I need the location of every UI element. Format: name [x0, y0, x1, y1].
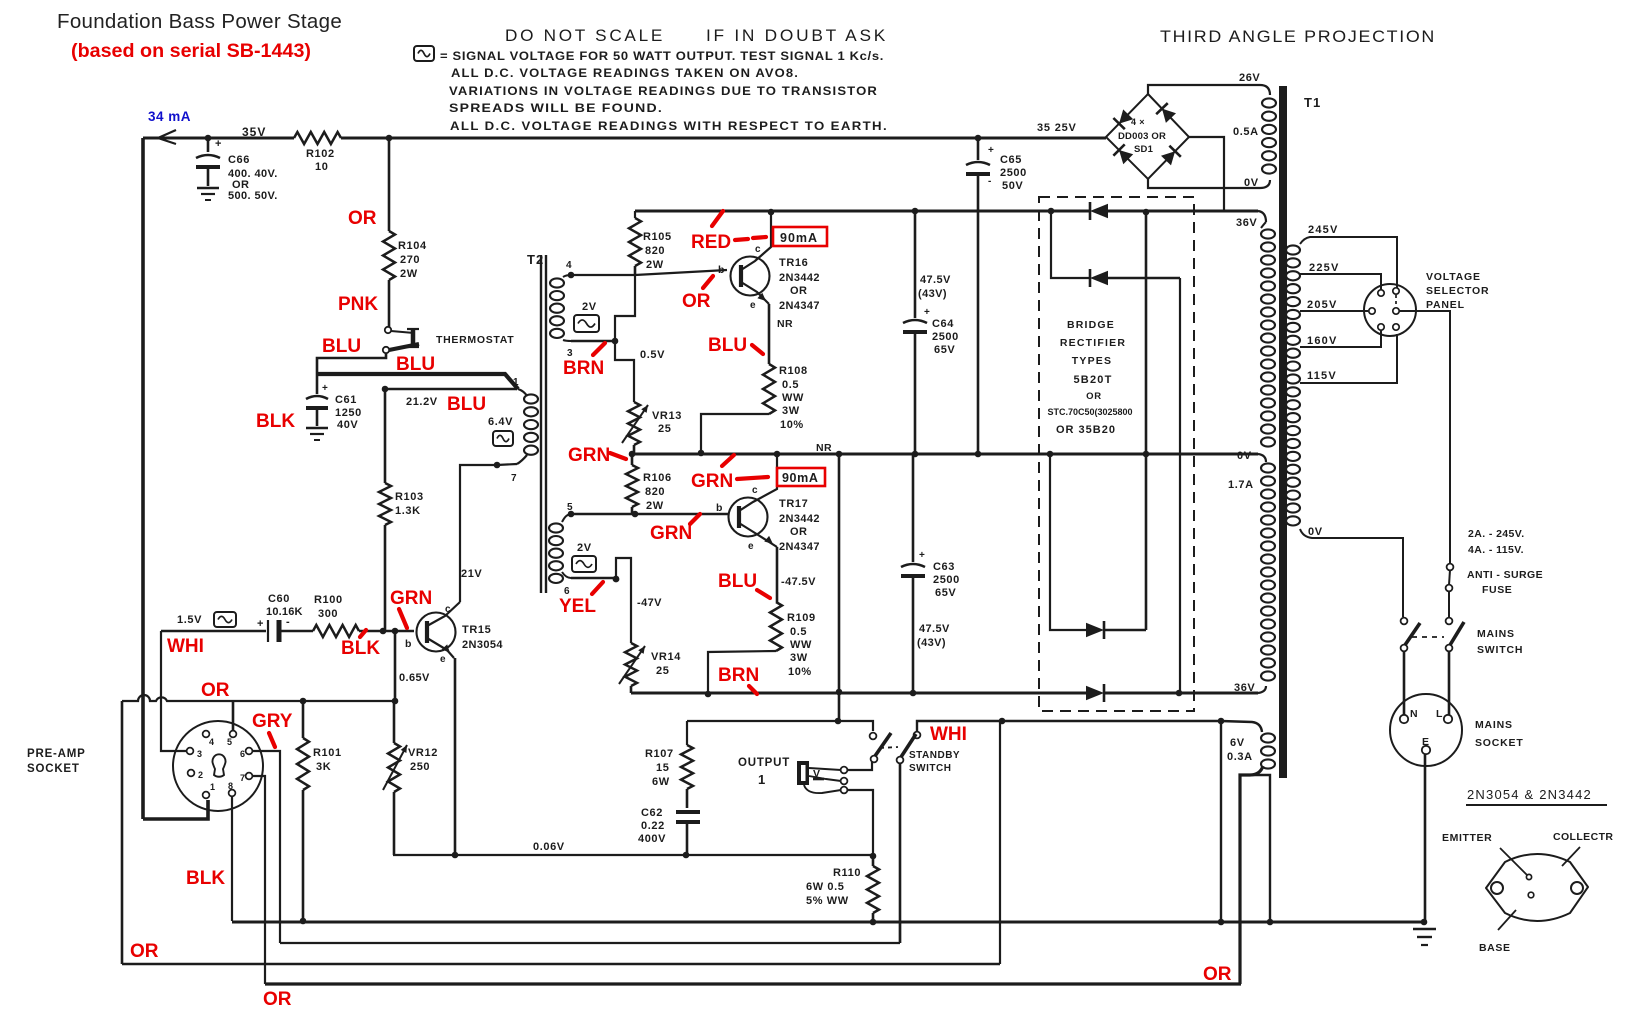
voltage selector panel	[1364, 284, 1416, 336]
svg-text:GRN: GRN	[390, 588, 432, 609]
svg-text:245V: 245V	[1308, 224, 1339, 236]
svg-text:2N3054 & 2N3442: 2N3054 & 2N3442	[1467, 787, 1592, 802]
wire OR rail bottom thick	[265, 982, 1241, 985]
diode D4 on -36V rail	[1086, 686, 1104, 700]
wire standby right contact to heater rail (WHI)	[917, 721, 1002, 732]
wire to pre-amp socket pin 1	[143, 800, 208, 819]
svg-text:VR12: VR12	[408, 747, 438, 759]
svg-text:R104: R104	[398, 240, 427, 252]
T1 winding 6V	[1261, 733, 1275, 742]
svg-text:2W: 2W	[646, 500, 664, 512]
wire 0.06V rail	[393, 854, 874, 856]
current arrow 34 mA	[158, 130, 176, 144]
svg-text:7: 7	[511, 473, 517, 484]
svg-text:OR: OR	[348, 208, 377, 229]
tap 115V	[1300, 334, 1397, 383]
diode D2 branch	[1048, 208, 1055, 215]
svg-text:10%: 10%	[780, 419, 804, 431]
svg-text:(43V): (43V)	[917, 637, 946, 649]
svg-text:2W: 2W	[400, 268, 418, 280]
svg-text:225V: 225V	[1309, 262, 1340, 274]
svg-text:SOCKET: SOCKET	[27, 763, 80, 775]
svg-text:RECTIFIER: RECTIFIER	[1060, 337, 1126, 349]
svg-text:2500: 2500	[933, 574, 960, 586]
svg-text:1: 1	[758, 772, 765, 787]
svg-text:RED: RED	[691, 232, 731, 253]
svg-text:OR: OR	[201, 680, 230, 701]
wire 6V bottom (OR) thick	[1240, 766, 1263, 984]
svg-text:BASE: BASE	[1479, 942, 1511, 954]
svg-text:4: 4	[209, 737, 214, 747]
svg-text:TR15: TR15	[462, 624, 491, 636]
svg-text:PRE-AMP: PRE-AMP	[27, 748, 86, 760]
svg-text:+: +	[924, 307, 930, 318]
diode D1 on +35V rail	[1090, 204, 1108, 218]
svg-text:5B20T: 5B20T	[1073, 374, 1112, 386]
wire D2 to -36V rail	[1179, 278, 1181, 693]
wire jack sleeve to 0.06V rail	[847, 790, 873, 856]
T1 winding 36V upper	[1261, 229, 1275, 238]
svg-text:R110: R110	[833, 867, 861, 879]
resistor R103	[384, 389, 387, 483]
capacitor C60	[267, 620, 269, 642]
svg-text:1: 1	[513, 377, 519, 388]
transistor TR16	[731, 257, 770, 296]
svg-text:BRIDGE: BRIDGE	[1067, 319, 1115, 331]
svg-text:SWITCH: SWITCH	[909, 763, 951, 774]
svg-text:BLK: BLK	[186, 868, 225, 889]
tap 0V primary	[1300, 529, 1403, 617]
svg-text:WHI: WHI	[930, 724, 967, 745]
wire C65 down to mid rail	[977, 211, 980, 454]
svg-text:0V: 0V	[1308, 526, 1323, 538]
svg-text:C63: C63	[933, 561, 955, 573]
tap 160V	[1300, 330, 1381, 347]
earth symbol	[1413, 928, 1436, 931]
svg-text:0.06V: 0.06V	[533, 841, 565, 853]
svg-text:3W: 3W	[782, 405, 800, 417]
svg-text:400V: 400V	[638, 833, 666, 845]
svg-text:R106: R106	[643, 472, 672, 484]
svg-text:5: 5	[227, 737, 232, 747]
svg-text:500. 50V.: 500. 50V.	[228, 190, 278, 202]
svg-text:4 ×: 4 ×	[1131, 117, 1145, 127]
wire TR17 emitter to R109	[776, 547, 779, 602]
svg-text:C61: C61	[335, 394, 357, 406]
svg-text:MAINS: MAINS	[1475, 719, 1513, 731]
wire S-jog pin3 node	[615, 275, 635, 402]
svg-text:e: e	[440, 654, 446, 665]
resistor R102	[294, 132, 341, 144]
wire TR15 emitter down	[454, 658, 457, 855]
svg-text:10.16K: 10.16K	[266, 606, 303, 618]
svg-text:2N4347: 2N4347	[779, 300, 820, 312]
leader base	[1498, 910, 1516, 930]
wire socket pin5 to bias rail	[232, 701, 235, 730]
leader collector	[1562, 847, 1580, 866]
annotation 90mA box TR16	[773, 227, 827, 246]
svg-text:3K: 3K	[316, 761, 331, 773]
svg-text:R103: R103	[395, 491, 424, 503]
svg-text:(based on serial SB-1443): (based on serial SB-1443)	[71, 41, 311, 62]
svg-text:R100: R100	[314, 594, 343, 606]
svg-text:OR 35B20: OR 35B20	[1056, 424, 1116, 436]
svg-text:5% WW: 5% WW	[806, 895, 849, 907]
wire bias rail y701	[122, 695, 397, 701]
svg-text:3: 3	[197, 749, 202, 759]
leader emitter	[1500, 848, 1527, 875]
svg-text:2V: 2V	[577, 542, 592, 554]
wire top +35V rail	[143, 137, 294, 140]
svg-text:0.5V: 0.5V	[640, 349, 665, 361]
bridge rectifier DD003	[1106, 94, 1189, 179]
svg-text:NR: NR	[777, 318, 793, 330]
svg-text:1250: 1250	[335, 407, 362, 419]
wire OR drop from bias rail	[121, 701, 124, 964]
svg-text:25: 25	[658, 423, 671, 435]
svg-text:TYPES: TYPES	[1072, 355, 1112, 367]
svg-text:DO NOT SCALE: DO NOT SCALE	[505, 27, 665, 45]
transistor TR17	[729, 498, 768, 537]
svg-text:36V: 36V	[1234, 682, 1255, 694]
svg-text:1: 1	[210, 782, 215, 792]
svg-text:250: 250	[410, 761, 430, 773]
svg-text:BLU: BLU	[718, 571, 757, 592]
svg-text:2N3442: 2N3442	[779, 513, 820, 525]
svg-text:e: e	[750, 300, 756, 311]
svg-text:21V: 21V	[461, 568, 482, 580]
svg-text:Foundation Bass Power Stage: Foundation Bass Power Stage	[57, 10, 342, 33]
variable resistor VR13	[628, 402, 640, 445]
T2 primary winding pins 1-7	[524, 394, 538, 403]
T2 secondary winding pins 4-3	[550, 278, 564, 287]
capacitor C61	[316, 374, 319, 394]
wire T2 pin7 to TR15 collector 21V	[460, 464, 517, 602]
svg-text:65V: 65V	[935, 587, 956, 599]
wire OR rail lower	[122, 963, 1000, 966]
svg-text:1.7A: 1.7A	[1228, 479, 1254, 491]
T1 winding 26V	[1262, 98, 1276, 107]
svg-text:OR: OR	[790, 285, 807, 297]
svg-text:15: 15	[656, 762, 669, 774]
svg-text:2N4347: 2N4347	[779, 541, 820, 553]
svg-text:+: +	[322, 383, 328, 394]
svg-text:BLK: BLK	[256, 411, 295, 432]
standby switch	[870, 733, 877, 740]
svg-text:+: +	[919, 550, 925, 561]
variable resistor VR14	[625, 643, 637, 686]
svg-text:EMITTER: EMITTER	[1442, 832, 1492, 844]
svg-text:MAINS: MAINS	[1477, 628, 1515, 640]
svg-text:21.2V: 21.2V	[406, 396, 438, 408]
svg-text:OR: OR	[263, 989, 292, 1010]
svg-text:25: 25	[656, 665, 669, 677]
svg-text:b: b	[718, 264, 724, 276]
node TR15 base	[380, 628, 387, 635]
svg-text:2A. - 245V.: 2A. - 245V.	[1468, 528, 1525, 540]
svg-text:BLU: BLU	[322, 336, 361, 357]
transformer T1 core	[1279, 86, 1287, 778]
svg-text:C65: C65	[1000, 154, 1022, 166]
wire -36V rail	[631, 692, 1086, 695]
svg-text:ALL D.C. VOLTAGE READINGS WITH: ALL D.C. VOLTAGE READINGS WITH RESPECT T…	[450, 121, 888, 133]
svg-text:(43V): (43V)	[918, 288, 947, 300]
svg-text:E: E	[1422, 736, 1429, 748]
svg-text:0.22: 0.22	[641, 820, 665, 832]
svg-text:YEL: YEL	[559, 596, 596, 617]
wire 21.2V to T2 pin 1	[382, 386, 389, 393]
svg-text:OR: OR	[1203, 964, 1232, 985]
thermostat	[385, 327, 391, 333]
svg-text:2N3442: 2N3442	[779, 272, 820, 284]
svg-text:6W: 6W	[652, 776, 670, 788]
svg-text:1.3K: 1.3K	[395, 505, 421, 517]
wires switch to socket	[1403, 651, 1406, 715]
wire bridge bottom 0V	[1148, 179, 1270, 188]
svg-text:SWITCH: SWITCH	[1477, 644, 1523, 656]
svg-text:+: +	[257, 618, 263, 630]
svg-text:-: -	[988, 176, 991, 187]
svg-text:34 mA: 34 mA	[148, 109, 191, 124]
svg-text:BLK: BLK	[341, 638, 380, 659]
svg-text:OR: OR	[790, 526, 807, 538]
wire GRY rail	[280, 942, 900, 944]
svg-text:PNK: PNK	[338, 294, 378, 315]
wire input 1.5V (WHI)	[161, 630, 266, 632]
svg-text:WW: WW	[790, 639, 812, 651]
svg-text:2N3054: 2N3054	[462, 639, 503, 651]
svg-text:VARIATIONS IN VOLTAGE READINGS: VARIATIONS IN VOLTAGE READINGS DUE TO TR…	[449, 86, 878, 98]
tap 245V	[1300, 237, 1397, 288]
svg-text:WW: WW	[782, 392, 804, 404]
svg-text:c: c	[445, 604, 451, 615]
svg-text:820: 820	[645, 486, 665, 498]
svg-text:BRN: BRN	[563, 358, 604, 379]
svg-text:BRN: BRN	[718, 665, 759, 686]
svg-text:STANDBY: STANDBY	[909, 750, 960, 761]
svg-text:NR: NR	[816, 442, 832, 454]
svg-text:T2: T2	[527, 252, 544, 267]
svg-text:L: L	[1436, 708, 1443, 720]
svg-text:2: 2	[198, 770, 203, 780]
capacitor C64	[912, 208, 919, 215]
svg-text:0.5A: 0.5A	[1233, 126, 1259, 138]
svg-text:C64: C64	[932, 318, 954, 330]
wire thermostat to C61 and T2 (BLU)	[317, 353, 386, 374]
wire standby to GRY rail	[899, 763, 902, 943]
svg-text:ALL D.C. VOLTAGE READINGS TAKE: ALL D.C. VOLTAGE READINGS TAKEN ON AVO8.	[451, 68, 799, 80]
svg-text:0.5: 0.5	[782, 379, 799, 391]
diode D3 branch	[1047, 451, 1054, 458]
svg-text:50V: 50V	[1002, 180, 1023, 192]
svg-text:+: +	[215, 138, 221, 150]
wire left edge vertical	[141, 138, 145, 819]
wire socket pin6 (GRY)	[252, 751, 280, 943]
svg-text:40V: 40V	[337, 419, 358, 431]
capacitor C62	[676, 810, 700, 814]
wire socket pin8 to ground rail	[231, 797, 233, 921]
svg-text:6.4V: 6.4V	[488, 416, 513, 428]
svg-text:0.5: 0.5	[790, 626, 807, 638]
svg-text:PANEL: PANEL	[1426, 299, 1465, 311]
svg-text:DD003 OR: DD003 OR	[1118, 131, 1166, 142]
svg-text:2W: 2W	[646, 259, 664, 271]
wire heater drop to ground	[1220, 721, 1222, 922]
svg-text:GRN: GRN	[568, 445, 610, 466]
svg-text:ANTI - SURGE: ANTI - SURGE	[1467, 569, 1543, 581]
svg-text:0V: 0V	[1244, 177, 1259, 189]
T2 secondary winding pins 5-6	[549, 523, 563, 532]
svg-text:7: 7	[240, 773, 245, 783]
svg-text:35V: 35V	[242, 125, 266, 139]
svg-text:TR17: TR17	[779, 498, 808, 510]
svg-text:GRY: GRY	[252, 711, 293, 732]
svg-text:GRN: GRN	[691, 471, 733, 492]
svg-text:3W: 3W	[790, 652, 808, 664]
svg-text:= SIGNAL VOLTAGE FOR 50 WATT O: = SIGNAL VOLTAGE FOR 50 WATT OUTPUT. TES…	[440, 51, 884, 63]
svg-text:270: 270	[400, 254, 420, 266]
svg-text:160V: 160V	[1307, 335, 1338, 347]
note sine symbol box	[414, 46, 434, 61]
svg-text:VR14: VR14	[651, 651, 681, 663]
svg-text:820: 820	[645, 245, 665, 257]
svg-text:4A. - 115V.: 4A. - 115V.	[1468, 544, 1524, 556]
wire T2 pin3	[571, 340, 615, 343]
wire jack to standby switch	[847, 762, 872, 770]
svg-text:IF IN DOUBT ASK: IF IN DOUBT ASK	[706, 27, 888, 45]
svg-text:47.5V: 47.5V	[919, 623, 950, 635]
wire earth	[1424, 754, 1427, 922]
node R108 drop	[698, 450, 705, 457]
resistor R104	[383, 231, 395, 280]
capacitor C65	[975, 135, 982, 142]
wire ground rail	[232, 921, 1424, 924]
capacitor C63	[912, 454, 915, 562]
annotation 90mA box TR17	[777, 468, 825, 486]
svg-text:OR: OR	[1086, 391, 1102, 402]
anti-surge fuse	[1447, 564, 1454, 571]
mains switch	[1401, 618, 1408, 625]
svg-text:115V: 115V	[1307, 370, 1337, 382]
svg-text:35 25V: 35 25V	[1037, 122, 1077, 134]
resistor R107	[686, 721, 688, 745]
svg-text:10%: 10%	[788, 666, 812, 678]
svg-text:FUSE: FUSE	[1482, 584, 1512, 596]
svg-text:R102: R102	[306, 148, 335, 160]
svg-text:6W 0.5: 6W 0.5	[806, 881, 844, 893]
svg-text:90mA: 90mA	[782, 471, 818, 485]
wire TR16 emitter to R108	[768, 304, 771, 364]
mains socket	[1390, 694, 1462, 766]
sine box 6.4V	[493, 431, 513, 446]
socket keyway	[213, 754, 226, 776]
wire TR15 base to bias rail	[394, 631, 397, 701]
svg-text:R109: R109	[787, 612, 816, 624]
svg-text:1.5V: 1.5V	[177, 614, 202, 626]
transistor TR15	[417, 613, 456, 652]
svg-text:0.3A: 0.3A	[1227, 751, 1253, 763]
svg-text:OUTPUT: OUTPUT	[738, 757, 790, 769]
sine box input	[214, 612, 236, 627]
wire T2 pin5 to TR17 base	[568, 511, 575, 518]
resistor R100	[281, 630, 313, 633]
wire R104 branch	[388, 138, 391, 231]
variable resistor VR12	[392, 698, 399, 705]
svg-text:VR13: VR13	[652, 410, 682, 422]
svg-text:VOLTAGE: VOLTAGE	[1426, 271, 1481, 283]
tap 205V	[1300, 310, 1368, 312]
svg-text:e: e	[748, 541, 754, 552]
wire bridge right to rail	[1189, 137, 1224, 211]
svg-text:R105: R105	[643, 231, 672, 243]
wire center vertical	[1143, 209, 1150, 216]
svg-text:0.65V: 0.65V	[399, 672, 430, 684]
pre-amp socket	[173, 721, 263, 811]
svg-text:6: 6	[240, 749, 245, 759]
svg-text:c: c	[755, 244, 761, 255]
svg-text:GRN: GRN	[650, 523, 692, 544]
svg-text:6V: 6V	[1230, 737, 1245, 749]
resistor R105	[634, 211, 636, 218]
wire T2 pin4 to TR16 base	[568, 272, 575, 279]
svg-text:SOCKET: SOCKET	[1475, 737, 1524, 749]
resistor R109	[770, 602, 782, 651]
node R104 branch	[386, 135, 393, 142]
wire socket pin7 (OR)	[252, 776, 265, 984]
output jack	[797, 761, 809, 785]
svg-text:THERMOSTAT: THERMOSTAT	[436, 334, 514, 346]
svg-text:BLU: BLU	[447, 394, 486, 415]
svg-text:4: 4	[566, 260, 572, 271]
wire heater rail to T1 6V winding	[1002, 721, 1262, 732]
svg-text:R108: R108	[779, 365, 808, 377]
svg-text:26V: 26V	[1239, 72, 1260, 84]
svg-text:OR: OR	[682, 291, 711, 312]
capacitor C66	[205, 135, 212, 142]
svg-text:b: b	[405, 638, 411, 650]
svg-text:BLU: BLU	[708, 335, 747, 356]
resistor R101	[300, 698, 307, 705]
svg-text:8: 8	[228, 781, 233, 791]
svg-text:OR: OR	[130, 941, 159, 962]
svg-text:2500: 2500	[932, 331, 959, 343]
svg-text:2V: 2V	[582, 301, 597, 313]
svg-text:10: 10	[315, 161, 328, 173]
svg-text:THIRD ANGLE PROJECTION: THIRD ANGLE PROJECTION	[1160, 27, 1436, 46]
svg-text:STC.70C50(3025800: STC.70C50(3025800	[1047, 407, 1132, 417]
resistor R110	[872, 855, 875, 866]
tap 225V	[1300, 274, 1381, 290]
T1 winding 36V lower	[1261, 463, 1275, 472]
svg-text:BLU: BLU	[396, 354, 435, 375]
svg-text:R101: R101	[313, 747, 342, 759]
svg-text:C62: C62	[641, 807, 663, 819]
svg-text:TR16: TR16	[779, 257, 808, 269]
wire bridge top to T1 26V	[1148, 85, 1270, 95]
svg-text:C66: C66	[228, 154, 250, 166]
svg-text:205V: 205V	[1307, 299, 1338, 311]
wire selector output	[1399, 311, 1450, 563]
TO-3 transistor package	[1486, 854, 1588, 921]
svg-text:WHI: WHI	[167, 636, 204, 657]
svg-text:300: 300	[318, 608, 338, 620]
wire T2 pin6 YEL node to VR14	[571, 577, 616, 580]
svg-text:N: N	[1410, 708, 1418, 720]
svg-text:36V: 36V	[1236, 217, 1257, 229]
resistor R106	[629, 451, 636, 458]
wire right loop TR17	[836, 451, 843, 458]
svg-text:90mA: 90mA	[780, 231, 818, 245]
